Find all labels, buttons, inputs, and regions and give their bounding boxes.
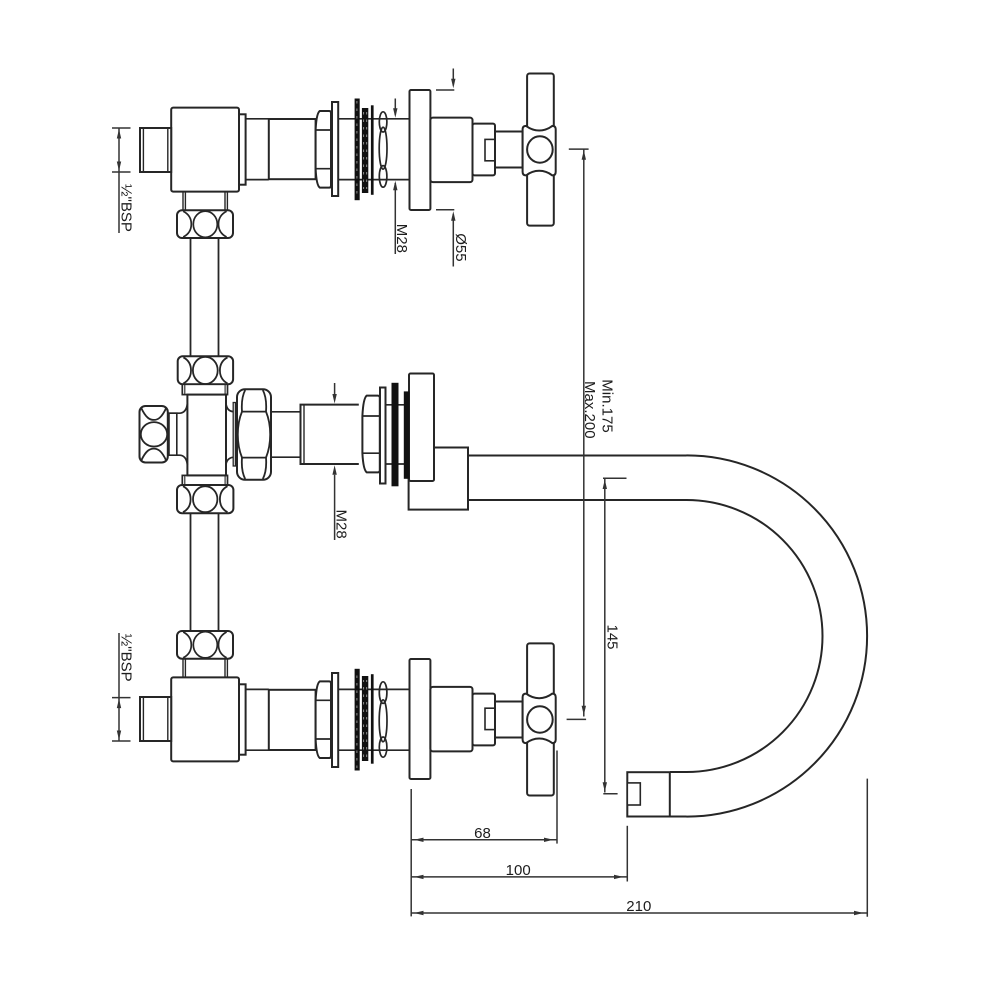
- shank hex nut: [362, 396, 379, 473]
- spout escutcheon plate: [409, 374, 434, 482]
- spout outlet block: [627, 772, 670, 816]
- riser pipe lower (tee to bottom valve): [191, 513, 219, 631]
- spout M28 threaded shank: [301, 405, 359, 464]
- dimensions: [112, 69, 867, 917]
- spout union nut: [237, 389, 271, 480]
- svg-text:M28: M28: [393, 224, 410, 253]
- tee top union nut: [178, 356, 233, 384]
- dim M28 middle leader: [332, 383, 336, 540]
- extension line left (wall face): [410, 789, 412, 916]
- svg-text:½"BSP: ½"BSP: [118, 184, 135, 232]
- extension line spout right: [866, 779, 868, 917]
- tee body: [187, 395, 226, 476]
- top valve assembly: [140, 74, 556, 239]
- aerator notch: [627, 783, 640, 805]
- svg-text:Max.200: Max.200: [581, 381, 598, 439]
- connector lines behind seals: [386, 405, 410, 464]
- tee left arm: [168, 413, 179, 455]
- spout rubber seal 2: [404, 391, 410, 478]
- dim 1/2 BSP top: [112, 128, 131, 233]
- extension line outlet: [626, 826, 628, 882]
- arm-tee fillets: [179, 404, 187, 465]
- spout outer bend: [687, 455, 868, 816]
- dim 145: [603, 478, 627, 793]
- spout body block: [409, 448, 468, 510]
- svg-text:100: 100: [506, 862, 531, 879]
- dim 1/2 BSP bottom: [112, 633, 131, 741]
- svg-text:210: 210: [626, 898, 651, 915]
- dim 68 line: [411, 839, 557, 841]
- bottom valve assembly (mirrored): [140, 631, 556, 796]
- dim O55: [436, 69, 454, 267]
- dim Min175 Max200: [567, 149, 589, 719]
- spout shank neck: [271, 412, 301, 457]
- svg-text:145: 145: [604, 625, 621, 650]
- tee bottom collar: [182, 475, 227, 485]
- tee right neck fillets: [226, 404, 235, 465]
- svg-text:68: 68: [474, 825, 491, 842]
- spout inner bend: [687, 500, 823, 772]
- left end cap: [140, 406, 168, 463]
- central tee / spout assembly: [140, 356, 868, 816]
- dim 100 line: [411, 876, 627, 878]
- svg-text:Ø55: Ø55: [452, 233, 469, 261]
- svg-text:½"BSP: ½"BSP: [118, 634, 135, 682]
- spout rubber seal 1: [392, 383, 399, 487]
- spout lower tube: [670, 772, 687, 817]
- neck washer: [233, 403, 235, 467]
- dim M28 top: [394, 99, 396, 255]
- dim 210 line: [411, 912, 867, 914]
- extension line handle: [556, 751, 558, 844]
- tee top collar: [182, 384, 227, 394]
- tee bottom union nut: [177, 485, 233, 513]
- riser pipe upper (nut to tee): [191, 238, 219, 631]
- dimension texts: [118, 184, 652, 915]
- spout wall flange washer: [380, 388, 386, 484]
- spout upper tube: [468, 456, 687, 501]
- left arm collar: [169, 413, 177, 455]
- svg-text:Min.175: Min.175: [599, 379, 616, 432]
